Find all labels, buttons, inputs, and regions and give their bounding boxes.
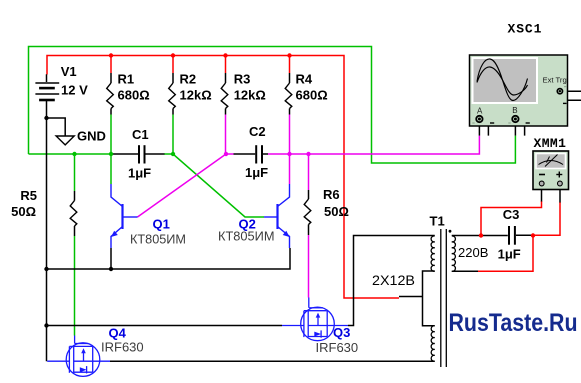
svg-text:50Ω: 50Ω	[324, 204, 349, 219]
svg-text:XMM1: XMM1	[534, 136, 567, 151]
svg-text:1μF: 1μF	[245, 165, 268, 180]
svg-text:V1: V1	[61, 64, 77, 79]
svg-text:R1: R1	[118, 72, 135, 87]
svg-text:C2: C2	[249, 124, 266, 139]
svg-text:2X12В: 2X12В	[372, 273, 415, 288]
svg-text:R5: R5	[20, 188, 37, 203]
svg-text:50Ω: 50Ω	[11, 204, 36, 219]
svg-text:RusTaste.Ru: RusTaste.Ru	[449, 309, 578, 337]
svg-text:КТ805ИМ: КТ805ИМ	[130, 231, 186, 246]
svg-text:C1: C1	[132, 127, 149, 142]
svg-text:12 V: 12 V	[61, 83, 88, 98]
svg-text:Q3: Q3	[333, 325, 350, 340]
svg-text:A: A	[477, 106, 483, 115]
svg-text:1μF: 1μF	[498, 247, 521, 262]
svg-text:Q1: Q1	[153, 217, 170, 232]
svg-text:R3: R3	[234, 72, 251, 87]
svg-text:Ext Trg: Ext Trg	[543, 76, 567, 85]
svg-text:R4: R4	[296, 72, 313, 87]
svg-text:680Ω: 680Ω	[296, 87, 328, 102]
svg-text:220В: 220В	[458, 245, 488, 260]
svg-text:КТ805ИМ: КТ805ИМ	[218, 228, 275, 243]
svg-text:IRF630: IRF630	[101, 340, 144, 355]
svg-text:R2: R2	[180, 72, 197, 87]
svg-text:GND: GND	[77, 128, 106, 143]
svg-text:B: B	[512, 106, 517, 115]
svg-text:XSC1: XSC1	[508, 22, 543, 37]
svg-text:R6: R6	[323, 187, 340, 202]
svg-text:Q4: Q4	[109, 326, 127, 341]
svg-text:IRF630: IRF630	[316, 340, 359, 355]
svg-text:C3: C3	[503, 207, 520, 222]
svg-text:1μF: 1μF	[128, 166, 151, 181]
svg-text:12kΩ: 12kΩ	[234, 87, 266, 102]
svg-text:T1: T1	[430, 213, 445, 228]
svg-text:12kΩ: 12kΩ	[180, 87, 212, 102]
svg-text:680Ω: 680Ω	[118, 87, 150, 102]
